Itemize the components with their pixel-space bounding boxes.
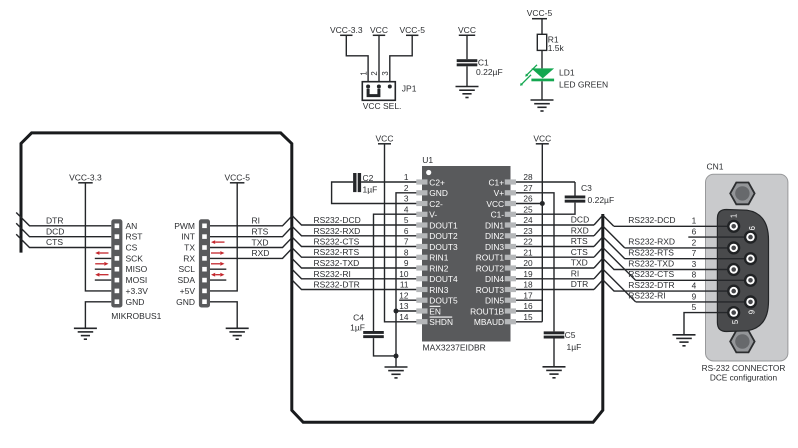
svg-text:TXD: TXD xyxy=(571,258,588,268)
svg-text:RS232-RI: RS232-RI xyxy=(314,269,351,279)
svg-text:MBAUD: MBAUD xyxy=(474,317,504,327)
svg-text:DIN4: DIN4 xyxy=(485,274,504,284)
svg-text:2: 2 xyxy=(404,183,409,193)
svg-text:DOUT5: DOUT5 xyxy=(429,296,458,306)
svg-text:DIN2: DIN2 xyxy=(485,231,504,241)
svg-text:1µF: 1µF xyxy=(350,323,365,333)
svg-text:MISO: MISO xyxy=(126,264,148,274)
svg-text:SCL: SCL xyxy=(178,264,195,274)
svg-text:RIN3: RIN3 xyxy=(429,285,448,295)
svg-text:0.22µF: 0.22µF xyxy=(476,67,503,77)
svg-text:V-: V- xyxy=(429,210,437,220)
svg-text:MOSI: MOSI xyxy=(126,275,148,285)
svg-text:C5: C5 xyxy=(565,330,576,340)
svg-text:RIN2: RIN2 xyxy=(429,263,448,273)
svg-text:DTR: DTR xyxy=(571,279,588,289)
svg-text:ROUT1: ROUT1 xyxy=(476,253,505,263)
svg-text:VCC-5: VCC-5 xyxy=(224,172,250,182)
svg-text:22: 22 xyxy=(523,237,533,247)
svg-text:DCE configuration: DCE configuration xyxy=(710,373,778,383)
svg-text:RTS: RTS xyxy=(252,227,269,237)
svg-text:+3.3V: +3.3V xyxy=(126,286,149,296)
svg-text:VCC: VCC xyxy=(370,25,388,35)
svg-text:CTS: CTS xyxy=(571,247,588,257)
svg-text:DIN3: DIN3 xyxy=(485,242,504,252)
svg-text:4: 4 xyxy=(404,204,409,214)
svg-text:5: 5 xyxy=(731,319,740,324)
svg-text:2: 2 xyxy=(370,71,379,75)
svg-text:28: 28 xyxy=(523,172,533,182)
svg-text:C3: C3 xyxy=(581,183,592,193)
svg-text:19: 19 xyxy=(523,269,533,279)
svg-text:12: 12 xyxy=(399,290,409,300)
svg-text:SHDN: SHDN xyxy=(429,317,453,327)
svg-text:C2-: C2- xyxy=(429,199,443,209)
svg-text:26: 26 xyxy=(523,194,533,204)
svg-text:16: 16 xyxy=(523,301,533,311)
svg-text:DTR: DTR xyxy=(46,216,63,226)
svg-text:C2: C2 xyxy=(363,173,374,183)
svg-text:LED GREEN: LED GREEN xyxy=(559,80,608,90)
svg-text:6: 6 xyxy=(692,227,697,237)
svg-text:DCD: DCD xyxy=(46,226,64,236)
svg-text:RI: RI xyxy=(571,268,580,278)
svg-text:RX: RX xyxy=(183,253,195,263)
svg-text:C4: C4 xyxy=(353,312,364,322)
svg-text:SCK: SCK xyxy=(126,253,144,263)
svg-text:RS232-RI: RS232-RI xyxy=(628,291,665,301)
svg-text:VCC SEL.: VCC SEL. xyxy=(363,101,402,111)
svg-text:VCC: VCC xyxy=(458,25,476,35)
svg-text:RXD: RXD xyxy=(252,248,270,258)
svg-text:0.22µF: 0.22µF xyxy=(588,195,615,205)
svg-text:7: 7 xyxy=(692,248,697,258)
svg-text:CS: CS xyxy=(126,243,138,253)
svg-text:1: 1 xyxy=(692,216,697,226)
svg-text:C2+: C2+ xyxy=(429,177,445,187)
svg-text:SDA: SDA xyxy=(178,275,196,285)
svg-text:4: 4 xyxy=(692,281,697,291)
svg-text:18: 18 xyxy=(523,280,533,290)
svg-text:RIN1: RIN1 xyxy=(429,253,448,263)
svg-text:7: 7 xyxy=(404,237,409,247)
svg-text:9: 9 xyxy=(747,310,756,314)
svg-text:1µF: 1µF xyxy=(567,342,582,352)
svg-text:1.5k: 1.5k xyxy=(548,43,565,53)
svg-text:AN: AN xyxy=(126,221,138,231)
svg-text:21: 21 xyxy=(523,247,533,257)
svg-text:23: 23 xyxy=(523,226,533,236)
svg-text:DOUT4: DOUT4 xyxy=(429,274,458,284)
svg-text:6: 6 xyxy=(404,226,409,236)
svg-text:RS232-DTR: RS232-DTR xyxy=(314,280,360,290)
svg-text:TX: TX xyxy=(184,243,195,253)
svg-text:20: 20 xyxy=(523,258,533,268)
svg-text:1µF: 1µF xyxy=(363,185,378,195)
svg-text:1: 1 xyxy=(404,172,409,182)
svg-text:1: 1 xyxy=(359,71,368,75)
svg-text:RS232-CTS: RS232-CTS xyxy=(314,237,360,247)
svg-text:1: 1 xyxy=(729,214,738,218)
svg-text:C1+: C1+ xyxy=(488,177,504,187)
svg-text:V+: V+ xyxy=(494,188,505,198)
svg-text:3: 3 xyxy=(404,194,409,204)
svg-text:RTS: RTS xyxy=(571,236,588,246)
svg-text:RS232-DCD: RS232-DCD xyxy=(628,215,675,225)
svg-text:6: 6 xyxy=(748,226,757,230)
svg-text:RXD: RXD xyxy=(571,225,589,235)
svg-text:RS232-RXD: RS232-RXD xyxy=(628,237,675,247)
svg-text:RS232-TXD: RS232-TXD xyxy=(628,258,674,268)
svg-text:VCC-5: VCC-5 xyxy=(527,8,553,18)
svg-text:TXD: TXD xyxy=(252,237,269,247)
svg-text:VCC: VCC xyxy=(376,133,394,143)
svg-text:CN1: CN1 xyxy=(707,162,724,172)
svg-text:C1: C1 xyxy=(478,57,489,67)
svg-text:8: 8 xyxy=(404,247,409,257)
svg-text:24: 24 xyxy=(523,215,533,225)
svg-text:15: 15 xyxy=(523,312,533,322)
svg-text:5: 5 xyxy=(692,302,697,312)
svg-text:RS232-CTS: RS232-CTS xyxy=(628,269,674,279)
svg-text:VCC: VCC xyxy=(486,199,504,209)
svg-text:9: 9 xyxy=(692,291,697,301)
svg-text:EN: EN xyxy=(429,306,441,316)
svg-text:DOUT1: DOUT1 xyxy=(429,220,458,230)
svg-text:3: 3 xyxy=(692,259,697,269)
svg-text:14: 14 xyxy=(399,312,409,322)
svg-text:ROUT2: ROUT2 xyxy=(476,263,505,273)
svg-text:RS232-RTS: RS232-RTS xyxy=(314,247,360,257)
svg-text:DIN5: DIN5 xyxy=(485,296,504,306)
svg-text:LD1: LD1 xyxy=(559,68,575,78)
svg-text:DOUT2: DOUT2 xyxy=(429,231,458,241)
svg-text:13: 13 xyxy=(399,301,409,311)
svg-text:+5V: +5V xyxy=(180,286,196,296)
svg-text:MAX3237EIDBR: MAX3237EIDBR xyxy=(423,343,486,353)
svg-text:27: 27 xyxy=(523,183,533,193)
svg-text:17: 17 xyxy=(523,290,533,300)
svg-text:VCC-3.3: VCC-3.3 xyxy=(69,172,102,182)
svg-text:GND: GND xyxy=(126,297,145,307)
svg-text:25: 25 xyxy=(523,204,533,214)
svg-text:GND: GND xyxy=(176,297,195,307)
svg-text:DCD: DCD xyxy=(571,215,589,225)
svg-text:DIN1: DIN1 xyxy=(485,220,504,230)
svg-text:RST: RST xyxy=(126,232,143,242)
svg-text:RS232-DTR: RS232-DTR xyxy=(628,280,674,290)
svg-text:9: 9 xyxy=(404,258,409,268)
svg-text:ROUT3: ROUT3 xyxy=(476,285,505,295)
svg-text:GND: GND xyxy=(429,188,448,198)
svg-text:5: 5 xyxy=(404,215,409,225)
svg-text:RS232-TXD: RS232-TXD xyxy=(314,258,360,268)
svg-text:RS232-RXD: RS232-RXD xyxy=(314,226,361,236)
svg-text:8: 8 xyxy=(692,270,697,280)
svg-text:C1-: C1- xyxy=(491,210,505,220)
svg-text:VCC: VCC xyxy=(533,133,551,143)
svg-text:RS232-DCD: RS232-DCD xyxy=(314,215,361,225)
svg-text:VCC-3.3: VCC-3.3 xyxy=(330,25,363,35)
svg-text:10: 10 xyxy=(399,269,409,279)
svg-text:U1: U1 xyxy=(422,155,433,165)
svg-text:JP1: JP1 xyxy=(402,83,417,93)
svg-text:RS232-RTS: RS232-RTS xyxy=(628,248,674,258)
svg-text:2: 2 xyxy=(692,237,697,247)
svg-text:PWM: PWM xyxy=(174,221,195,231)
svg-text:11: 11 xyxy=(400,280,409,290)
svg-text:ROUT1B: ROUT1B xyxy=(470,306,504,316)
svg-text:RI: RI xyxy=(252,216,261,226)
svg-text:VCC-5: VCC-5 xyxy=(399,25,425,35)
svg-text:CTS: CTS xyxy=(46,237,63,247)
svg-text:DOUT3: DOUT3 xyxy=(429,242,458,252)
svg-text:3: 3 xyxy=(381,71,390,75)
svg-text:MIKROBUS1: MIKROBUS1 xyxy=(111,311,161,321)
svg-text:INT: INT xyxy=(181,232,195,242)
